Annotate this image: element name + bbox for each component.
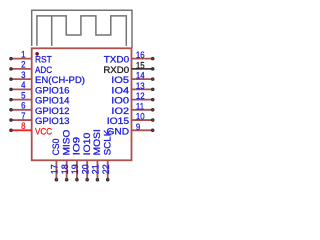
module body U1 (ESP-12 outline) — [32, 48, 132, 160]
pin 13 (IO4) right — [111, 80, 153, 96]
pin 1 (RST) left — [10, 49, 52, 65]
svg-text:VCC: VCC — [35, 126, 53, 137]
pin 7 (GPIO13) left — [10, 110, 70, 127]
svg-text:8: 8 — [21, 120, 25, 131]
pin 21 (MOSI) bottom — [90, 129, 103, 181]
pin 17 (CS0) bottom — [49, 139, 61, 181]
svg-text:SCLK: SCLK — [102, 129, 113, 155]
svg-text:MOSI: MOSI — [92, 129, 103, 155]
pin 20 (IO10) bottom — [80, 132, 93, 181]
pin 22 (SCLK) bottom — [101, 129, 114, 181]
svg-text:21: 21 — [90, 164, 100, 174]
pin 5 (GPIO14) left — [10, 90, 70, 107]
pin 4 (GPIO16) left — [10, 79, 70, 96]
pin 15 (RXD0) right — [103, 60, 154, 76]
pin 6 (GPIO12) left — [10, 100, 70, 117]
svg-text:IO2: IO2 — [111, 106, 129, 116]
svg-text:9: 9 — [136, 121, 140, 132]
svg-text:RXD0: RXD0 — [103, 65, 129, 76]
antenna A1 (meander PCB antenna) — [32, 10, 132, 48]
pin 9 (GND) right — [107, 121, 154, 137]
svg-text:17: 17 — [49, 164, 59, 174]
svg-text:IO5: IO5 — [111, 76, 129, 86]
pin 1 marker dot — [35, 52, 39, 56]
svg-text:IO4: IO4 — [111, 86, 129, 96]
pin 18 (MISO) bottom — [59, 129, 72, 181]
pin 14 (IO5) right — [111, 70, 154, 86]
svg-text:IO15: IO15 — [107, 116, 130, 127]
pin 2 (ADC) left — [10, 59, 53, 75]
pin 11 (IO2) right — [111, 101, 153, 117]
svg-text:RST: RST — [35, 54, 52, 65]
pin 8 (VCC) left — [10, 120, 53, 136]
pin 16 (TXD0) right — [104, 49, 154, 65]
svg-text:19: 19 — [70, 164, 80, 174]
svg-text:CS0: CS0 — [51, 139, 62, 156]
svg-text:IO9: IO9 — [71, 137, 82, 156]
pin 10 (IO15) right — [107, 111, 154, 127]
svg-text:20: 20 — [80, 164, 90, 174]
pin 12 (IO0) right — [111, 90, 154, 106]
svg-text:ADC: ADC — [35, 64, 53, 75]
svg-text:18: 18 — [59, 164, 69, 174]
pin 19 (IO9) bottom — [70, 137, 83, 181]
svg-text:IO10: IO10 — [82, 132, 93, 155]
svg-text:22: 22 — [101, 164, 111, 174]
svg-text:IO0: IO0 — [111, 96, 129, 106]
pin 3 (EN(CH-PD)) left — [10, 69, 85, 86]
